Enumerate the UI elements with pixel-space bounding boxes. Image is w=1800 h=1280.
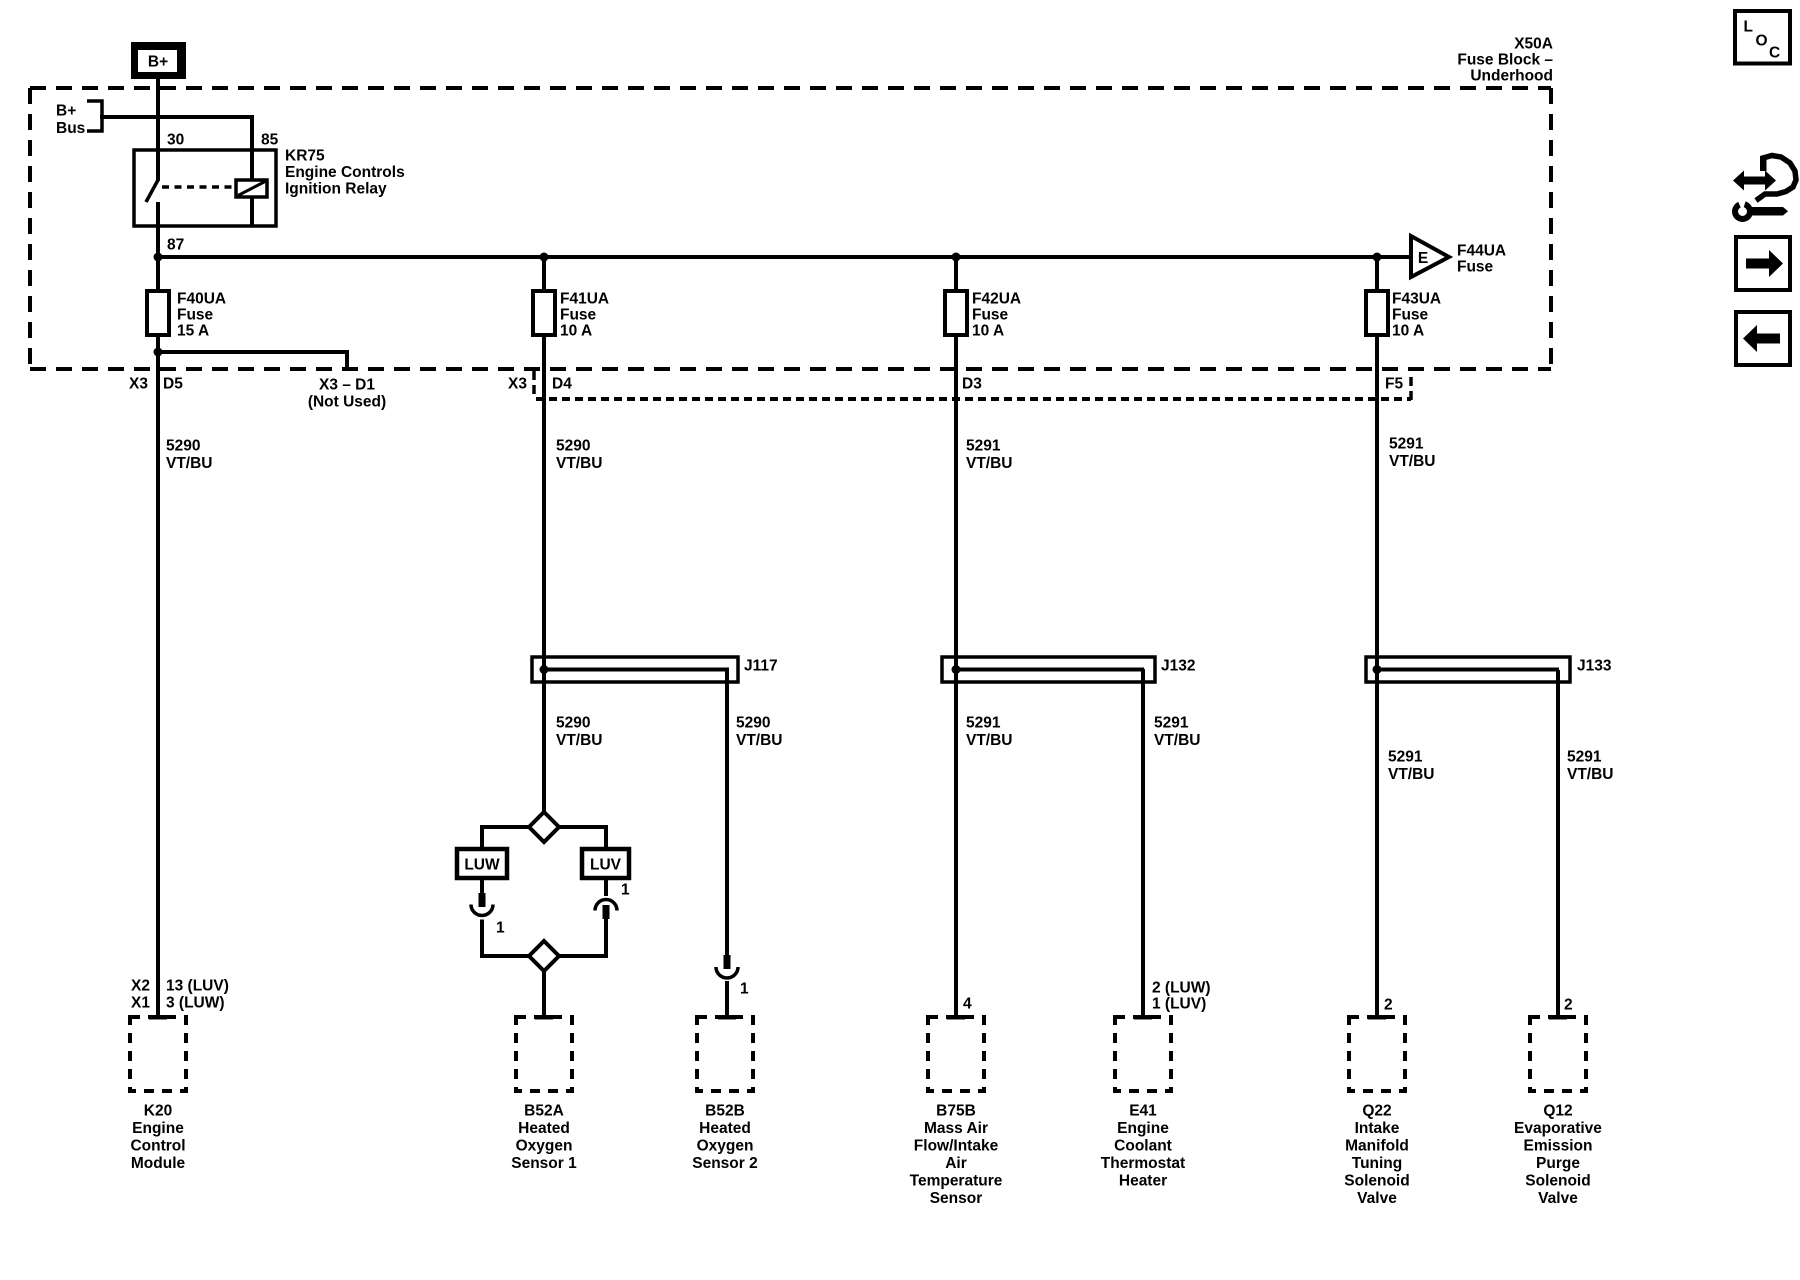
svg-text:KR75: KR75: [285, 148, 325, 165]
svg-text:VT/BU: VT/BU: [556, 455, 603, 472]
svg-text:Fuse: Fuse: [1392, 307, 1429, 324]
svg-text:5290: 5290: [736, 715, 770, 732]
wire label 5291 VT/BU splice J132 right: [1154, 715, 1201, 750]
wire label 5291 VT/BU column 4: [1389, 436, 1436, 471]
svg-text:15 A: 15 A: [177, 323, 209, 340]
svg-text:F42UA: F42UA: [972, 291, 1021, 308]
fuse F43UA label: [1392, 291, 1441, 340]
fuse F40UA: [147, 291, 169, 335]
svg-text:4: 4: [963, 996, 972, 1013]
component label Q22 Intake Manifold Tuning Solenoid Valve: [1344, 1103, 1409, 1208]
svg-text:J132: J132: [1161, 658, 1195, 675]
svg-text:2: 2: [1384, 997, 1393, 1014]
svg-text:10 A: 10 A: [972, 323, 1004, 340]
svg-text:30: 30: [167, 132, 184, 149]
relay label KR75 Engine Controls Ignition Relay: [285, 148, 405, 198]
wire splice J133 to Q12: [1556, 670, 1560, 1015]
svg-text:1: 1: [496, 920, 505, 937]
connector B52B dashed box: [697, 1017, 753, 1091]
wire stub to X3-D1: [158, 352, 347, 369]
wire label 5291 VT/BU column 3: [966, 438, 1013, 473]
svg-text:Sensor 2: Sensor 2: [692, 1155, 757, 1172]
svg-text:Solenoid: Solenoid: [1525, 1173, 1590, 1190]
svg-text:Fuse: Fuse: [1457, 259, 1494, 276]
svg-text:VT/BU: VT/BU: [966, 732, 1013, 749]
B+ bus bracket: [87, 101, 102, 131]
svg-text:Bus: Bus: [56, 120, 85, 137]
wire label 5290 VT/BU column 1: [166, 438, 213, 473]
wire connector LUW to bottom diamond: [482, 920, 529, 957]
connector Q22 dashed box: [1349, 1017, 1405, 1091]
svg-text:O: O: [1756, 33, 1768, 50]
fuse F44UA label: [1457, 243, 1506, 276]
service icon vehicle outline: [1756, 156, 1796, 201]
svg-text:Valve: Valve: [1538, 1190, 1578, 1207]
B+ Bus label: [56, 103, 85, 138]
svg-text:Sensor: Sensor: [930, 1190, 983, 1207]
svg-text:B75B: B75B: [936, 1103, 976, 1120]
fuse F41UA: [533, 291, 555, 335]
connector B52A dashed box: [516, 1017, 572, 1091]
wire fuse F40UA to ECM K20: [156, 335, 160, 1015]
svg-text:Purge: Purge: [1536, 1155, 1580, 1172]
wire connector to B52B: [725, 981, 729, 1015]
wire B+ bus to relay pin 85: [100, 115, 252, 180]
svg-text:Air: Air: [945, 1155, 967, 1172]
battery terminal B+: [131, 42, 186, 79]
svg-text:Manifold: Manifold: [1345, 1138, 1409, 1155]
connector X3 tick at D4: [532, 371, 536, 397]
terminal tick Q22: [1368, 1015, 1386, 1020]
svg-text:J133: J133: [1577, 658, 1612, 675]
svg-text:L: L: [1744, 19, 1753, 36]
junction dot F43UA branch: [1373, 253, 1382, 262]
relay KR75 box: [134, 150, 276, 226]
connector E41 dashed box: [1115, 1017, 1171, 1091]
svg-text:Fuse: Fuse: [560, 307, 597, 324]
wire LUW to connector: [480, 878, 484, 895]
svg-text:Oxygen: Oxygen: [697, 1138, 754, 1155]
connector X3 dotted row line: [536, 397, 1411, 401]
svg-text:1: 1: [621, 882, 630, 899]
svg-text:D5: D5: [163, 376, 183, 393]
fuse F42UA: [945, 291, 967, 335]
loc legend box: [1735, 11, 1790, 64]
ECM pin labels X2 13 LUV X1 3 LUW: [131, 978, 229, 1012]
svg-text:E: E: [1418, 250, 1428, 267]
svg-text:Module: Module: [131, 1155, 186, 1172]
pin labels 2 LUW 1 LUV E41: [1152, 980, 1211, 1013]
wire label 5290 VT/BU column 2: [556, 438, 603, 473]
connector terminal bar B52B: [724, 955, 731, 969]
svg-text:Heated: Heated: [699, 1120, 751, 1137]
connector X3 tick at F5: [1409, 377, 1413, 404]
svg-text:5291: 5291: [1567, 749, 1602, 766]
svg-text:Coolant: Coolant: [1114, 1138, 1172, 1155]
junction dot F42UA branch: [952, 253, 961, 262]
fuse block X50A dashed outline: [30, 88, 1551, 369]
svg-text:VT/BU: VT/BU: [166, 455, 213, 472]
svg-text:X3 – D1: X3 – D1: [319, 377, 375, 394]
forward arrow box: [1736, 237, 1790, 290]
svg-text:VT/BU: VT/BU: [736, 732, 783, 749]
svg-text:13 (LUV): 13 (LUV): [166, 978, 229, 995]
fuse F44UA symbol E triangle: [1411, 236, 1449, 277]
svg-text:VT/BU: VT/BU: [1567, 766, 1614, 783]
svg-text:Heater: Heater: [1119, 1173, 1167, 1190]
connector socket arc B52B: [716, 967, 738, 978]
component label E41 Engine Coolant Thermostat Heater: [1101, 1103, 1185, 1190]
svg-text:Oxygen: Oxygen: [516, 1138, 573, 1155]
wire bus to fuse F42UA: [954, 257, 958, 291]
back arrow box: [1736, 312, 1790, 365]
svg-text:F41UA: F41UA: [560, 291, 609, 308]
svg-text:(Not Used): (Not Used): [308, 394, 386, 411]
svg-text:Engine: Engine: [1117, 1120, 1169, 1137]
svg-text:F44UA: F44UA: [1457, 243, 1506, 260]
svg-text:87: 87: [167, 237, 184, 254]
svg-text:X50A: X50A: [1514, 36, 1553, 53]
fuse F42UA label: [972, 291, 1021, 340]
junction dot pin 87: [154, 253, 163, 262]
svg-text:LUV: LUV: [590, 857, 622, 874]
svg-text:Underhood: Underhood: [1470, 68, 1553, 85]
connector label X3 - D1 (Not Used): [308, 377, 386, 411]
connector label X3 D4: [508, 376, 572, 393]
wire splice J117 to B52B connector: [725, 669, 729, 956]
relay switch blade: [146, 180, 158, 202]
svg-text:Ignition Relay: Ignition Relay: [285, 181, 387, 198]
svg-text:Fuse: Fuse: [972, 307, 1009, 324]
svg-text:VT/BU: VT/BU: [966, 455, 1013, 472]
connector B75B dashed box: [928, 1017, 984, 1091]
wire bus to fuse F40UA: [156, 257, 160, 291]
svg-text:10 A: 10 A: [560, 323, 592, 340]
svg-text:Intake: Intake: [1355, 1120, 1400, 1137]
ho2s1 bottom diamond splice: [529, 941, 559, 971]
svg-text:5291: 5291: [1154, 715, 1189, 732]
wire splice J132 to E41: [1141, 669, 1145, 1015]
terminal tick B52A: [535, 1015, 553, 1020]
connector socket arc LUW: [471, 905, 493, 916]
svg-text:D3: D3: [962, 376, 982, 393]
svg-text:LUW: LUW: [464, 857, 500, 874]
svg-text:X1: X1: [131, 995, 150, 1012]
wire label 5291 VT/BU splice J133 left: [1388, 749, 1435, 784]
wire bus to fuse F43UA: [1375, 257, 1379, 291]
main feed bus wire: [158, 255, 1411, 259]
svg-text:B+: B+: [56, 103, 76, 120]
svg-text:VT/BU: VT/BU: [1154, 732, 1201, 749]
ho2s1 top diamond splice: [529, 812, 559, 842]
component label Q12 Evaporative Emission Purge Solenoid Valve: [1514, 1103, 1602, 1208]
relay coil: [236, 180, 267, 197]
wire diamond right arm to LUV: [559, 827, 606, 849]
svg-text:10 A: 10 A: [1392, 323, 1424, 340]
wire relay coil to box bottom: [250, 197, 254, 226]
svg-text:2 (LUW): 2 (LUW): [1152, 980, 1211, 997]
svg-text:F43UA: F43UA: [1392, 291, 1441, 308]
service icon wrench: [1735, 197, 1788, 220]
wire relay pin 87 to bus: [156, 202, 160, 259]
svg-text:Heated: Heated: [518, 1120, 570, 1137]
svg-text:1 (LUV): 1 (LUV): [1152, 996, 1206, 1013]
svg-text:Thermostat: Thermostat: [1101, 1155, 1185, 1172]
svg-text:2: 2: [1564, 997, 1573, 1014]
wire fuse F41UA to splice J117: [542, 335, 546, 812]
svg-text:B52B: B52B: [705, 1103, 745, 1120]
svg-text:5291: 5291: [966, 715, 1001, 732]
svg-text:B52A: B52A: [524, 1103, 564, 1120]
wire fuse F42UA to B75B: [954, 335, 958, 1015]
connector socket arc LUV: [595, 900, 617, 911]
svg-text:5290: 5290: [166, 438, 200, 455]
connector label X3 D5: [129, 376, 183, 393]
fuse F43UA: [1366, 291, 1388, 335]
connector terminal bar LUV: [603, 905, 610, 919]
wire LUV to connector: [604, 878, 608, 896]
svg-text:Sensor 1: Sensor 1: [511, 1155, 577, 1172]
svg-text:Valve: Valve: [1357, 1190, 1397, 1207]
component label B52B Heated Oxygen Sensor 2: [692, 1103, 757, 1173]
svg-text:Tuning: Tuning: [1352, 1155, 1403, 1172]
svg-text:5291: 5291: [966, 438, 1001, 455]
svg-text:Q12: Q12: [1543, 1103, 1572, 1120]
svg-text:Solenoid: Solenoid: [1344, 1173, 1409, 1190]
wire diamond left arm to LUW: [482, 827, 529, 849]
wire bottom diamond to B52A: [542, 971, 546, 1015]
svg-text:Fuse Block –: Fuse Block –: [1457, 52, 1553, 69]
component label K20 Engine Control Module: [130, 1103, 185, 1173]
svg-text:Engine: Engine: [132, 1120, 184, 1137]
wire label 5290 VT/BU splice right: [736, 715, 783, 750]
svg-text:5290: 5290: [556, 438, 590, 455]
connector K20 dashed box: [130, 1017, 186, 1091]
component label B52A Heated Oxygen Sensor 1: [511, 1103, 577, 1173]
connector terminal bar LUW: [479, 893, 486, 907]
junction dot X3-D1 stub: [154, 348, 163, 357]
svg-text:K20: K20: [144, 1103, 172, 1120]
fuse F40UA label: [177, 291, 226, 340]
svg-text:X3: X3: [508, 376, 527, 393]
fuse block label X50A Fuse Block - Underhood: [1457, 36, 1553, 85]
wire label 5291 VT/BU splice J133 right: [1567, 749, 1614, 784]
svg-text:VT/BU: VT/BU: [1389, 453, 1436, 470]
svg-text:5291: 5291: [1388, 749, 1423, 766]
svg-text:X3: X3: [129, 376, 148, 393]
relay actuator dashed link: [162, 185, 233, 189]
wire B+ to relay pin 30: [156, 79, 160, 181]
wire bus to fuse F41UA: [542, 257, 546, 291]
svg-text:B+: B+: [148, 54, 168, 71]
terminal tick B52B: [718, 1015, 736, 1020]
svg-text:Temperature: Temperature: [910, 1173, 1003, 1190]
svg-text:F40UA: F40UA: [177, 291, 226, 308]
terminal tick Q12: [1549, 1015, 1567, 1020]
connector Q12 dashed box: [1530, 1017, 1586, 1091]
splice J132: [942, 657, 1155, 682]
svg-text:5291: 5291: [1389, 436, 1424, 453]
wire fuse F43UA to Q22: [1375, 335, 1379, 1015]
svg-text:D4: D4: [552, 376, 572, 393]
svg-text:J117: J117: [744, 658, 778, 675]
svg-text:VT/BU: VT/BU: [1388, 766, 1435, 783]
junction dot F41UA branch: [540, 253, 549, 262]
svg-text:Fuse: Fuse: [177, 307, 214, 324]
svg-text:85: 85: [261, 132, 279, 149]
splice pack LUW: [457, 849, 507, 878]
terminal tick E41: [1134, 1015, 1152, 1020]
wire label 5290 VT/BU splice left: [556, 715, 603, 750]
svg-text:VT/BU: VT/BU: [556, 732, 603, 749]
terminal tick B75B: [947, 1015, 965, 1020]
svg-text:1: 1: [740, 981, 749, 998]
svg-text:C: C: [1769, 45, 1780, 62]
svg-text:3 (LUW): 3 (LUW): [166, 995, 225, 1012]
wire connector LUV to bottom diamond: [559, 919, 606, 956]
svg-text:E41: E41: [1129, 1103, 1157, 1120]
svg-text:F5: F5: [1385, 376, 1403, 393]
svg-text:Flow/Intake: Flow/Intake: [914, 1138, 999, 1155]
splice pack LUV: [582, 849, 629, 878]
terminal tick K20: [149, 1015, 167, 1020]
svg-text:5290: 5290: [556, 715, 590, 732]
svg-text:Engine Controls: Engine Controls: [285, 164, 405, 181]
splice J117: [532, 657, 738, 682]
svg-text:X2: X2: [131, 978, 150, 995]
svg-text:Mass Air: Mass Air: [924, 1120, 988, 1137]
svg-text:Q22: Q22: [1362, 1103, 1391, 1120]
wire label 5291 VT/BU splice J132 left: [966, 715, 1013, 750]
splice J133: [1366, 657, 1570, 682]
service icon double arrow: [1733, 171, 1776, 191]
fuse F41UA label: [560, 291, 609, 340]
svg-text:Emission: Emission: [1524, 1138, 1593, 1155]
svg-text:Evaporative: Evaporative: [1514, 1120, 1602, 1137]
svg-text:Control: Control: [130, 1138, 185, 1155]
component label B75B Mass Air Flow Intake Air Temperature Sensor: [910, 1103, 1003, 1208]
